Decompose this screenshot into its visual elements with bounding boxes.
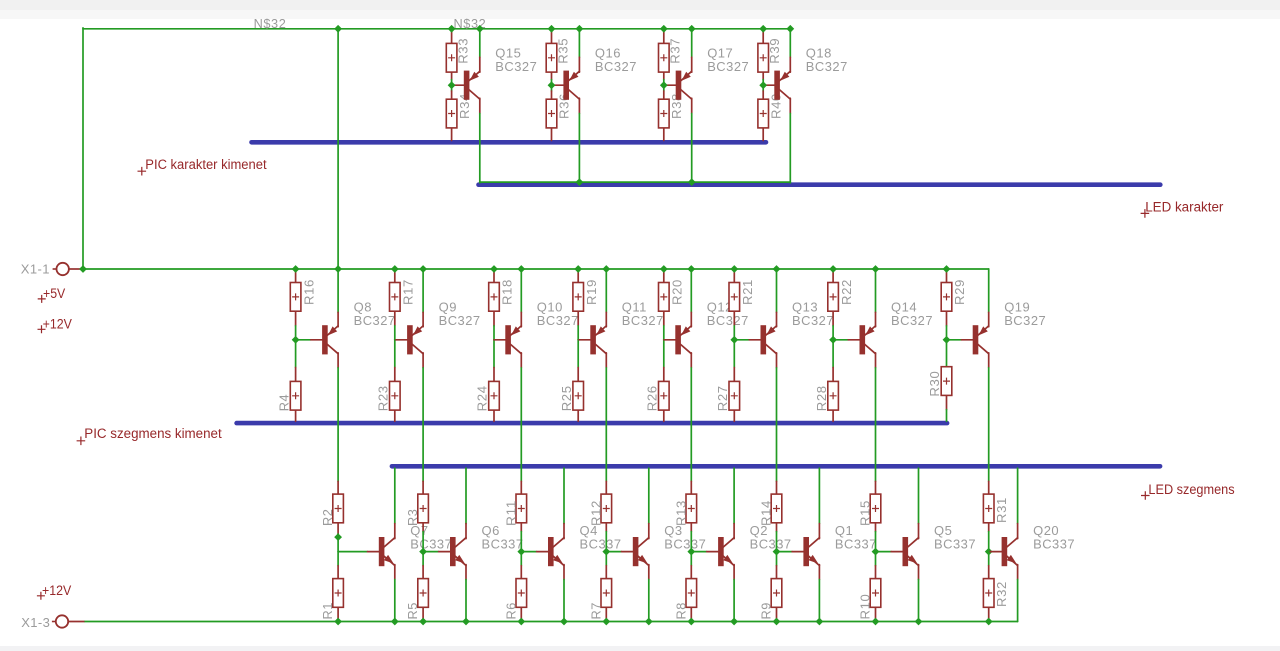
wire base node Q10 upper xyxy=(493,326,495,340)
junction base Q8 xyxy=(292,336,300,344)
bus PIC karakter kimenet xyxy=(252,140,767,145)
wire emitter Q11 net xyxy=(605,269,607,312)
wire net N$32 left vertical xyxy=(82,28,84,269)
wire base Q14 horizontal xyxy=(833,339,848,341)
resistor R9 xyxy=(759,579,782,620)
junction base Q19 xyxy=(943,336,951,344)
wire pin R27 top xyxy=(733,368,735,382)
wire emitter Q18 pin xyxy=(789,57,791,72)
wire base node Q5 xyxy=(875,532,877,566)
resistor R34 xyxy=(446,93,472,128)
wire collector Q13 pin xyxy=(776,353,778,368)
resistor R12 xyxy=(588,494,611,526)
junction base Q20 xyxy=(985,548,993,556)
svg-text:R5: R5 xyxy=(405,602,420,620)
resistor R26 xyxy=(645,381,670,411)
resistor R16 xyxy=(290,279,316,311)
wire pin R10 bottom xyxy=(875,607,877,621)
svg-text:BC327: BC327 xyxy=(495,59,537,74)
transistor Q1 (BC337) xyxy=(792,523,877,566)
junction X1-3 net at R1 xyxy=(334,618,342,626)
junction base Q6 xyxy=(419,548,427,556)
junction +5V net at R18 xyxy=(490,265,498,273)
wire base Q11 horizontal xyxy=(577,339,580,341)
wire collector Q10 pin xyxy=(520,353,522,368)
resistor R24 xyxy=(475,381,500,411)
wire collector Q15 pin xyxy=(479,98,481,113)
wire pin R5 bottom xyxy=(422,607,424,621)
wire emitter Q4 net xyxy=(563,580,565,622)
resistor R33 xyxy=(446,38,470,72)
wire base node Q15 xyxy=(451,80,453,91)
junction base Q3 xyxy=(602,548,610,556)
wire emitter Q5 pin xyxy=(918,565,920,580)
wire base node Q8 upper xyxy=(295,326,297,340)
wire pin R29 top xyxy=(946,269,948,283)
wire emitter Q16 pin xyxy=(578,57,580,72)
wire pin R3 bottom xyxy=(422,523,424,532)
wire base Q12 horizontal xyxy=(663,339,665,341)
junction base Q14 xyxy=(829,336,837,344)
svg-text:R13: R13 xyxy=(673,500,688,526)
bus LED karakter xyxy=(479,182,1161,187)
wire pin R7 top xyxy=(605,566,607,579)
wire collector Q9 pin xyxy=(422,353,424,368)
wire LED karakter net along bus xyxy=(480,181,791,183)
resistor R1 xyxy=(320,579,343,620)
wire pin R12 bottom xyxy=(605,523,607,532)
bus label LED karakter xyxy=(1141,199,1224,217)
junction +5V net at Q9 emitter xyxy=(419,265,427,273)
wire collector Q17 to LED karakter xyxy=(691,114,693,183)
wire base Q15 horizontal xyxy=(451,84,454,86)
wire pin R33 bottom xyxy=(451,71,453,79)
transistor Q14 (BC327) xyxy=(848,300,933,355)
wire X1-3 bottom horizontal xyxy=(85,621,1018,623)
svg-text:BC327: BC327 xyxy=(354,313,396,328)
power label +5V xyxy=(38,285,66,303)
svg-text:BC327: BC327 xyxy=(622,313,664,328)
wire pin R4 top xyxy=(295,368,297,382)
resistor R10 xyxy=(858,579,881,620)
wire pin R28 top xyxy=(832,368,834,382)
wire collector Q9 to R3 xyxy=(422,368,424,482)
wire N$32 vertical to X1-1 net xyxy=(337,29,339,269)
junction N$32 at Q16 emitter xyxy=(576,25,584,33)
wire emitter Q17 net xyxy=(691,29,693,57)
wire collector Q1 net xyxy=(818,468,820,523)
svg-text:R15: R15 xyxy=(858,500,873,526)
wire pin R20 bottom xyxy=(663,311,665,326)
svg-text:R3: R3 xyxy=(405,509,420,527)
wire pin R21 bottom xyxy=(733,311,735,326)
wire emitter Q1 pin xyxy=(818,565,820,580)
wire emitter Q2 net xyxy=(733,580,735,622)
wire pin R26 top xyxy=(663,368,665,382)
wire base node Q18 xyxy=(762,80,764,91)
svg-text:R4: R4 xyxy=(276,394,291,412)
svg-text:+12V: +12V xyxy=(42,582,72,598)
wire base Q3 horizontal xyxy=(606,551,621,553)
transistor Q11 (BC327) xyxy=(579,300,664,355)
wire collector Q19 to R31 xyxy=(988,368,990,482)
wire pin R31 top xyxy=(988,481,990,494)
wire emitter Q4 pin xyxy=(563,565,565,580)
junction LED karakter net at Q16 collector xyxy=(576,178,584,186)
resistor R29 xyxy=(941,279,967,311)
wire pin R17 top xyxy=(394,269,396,283)
wire pin R31 bottom xyxy=(988,523,990,532)
wire pin R26 bottom to bus xyxy=(663,410,665,421)
svg-text:R16: R16 xyxy=(301,279,316,305)
wire emitter Q6 pin xyxy=(465,565,467,580)
svg-text:R31: R31 xyxy=(994,497,1009,523)
resistor R4 xyxy=(276,381,301,411)
resistor R2 xyxy=(320,494,343,526)
wire pin R11 top xyxy=(520,481,522,494)
wire pin R28 bottom to bus xyxy=(832,410,834,421)
wire emitter Q16 net xyxy=(578,29,580,57)
resistor R35 xyxy=(546,38,570,72)
svg-text:N$32: N$32 xyxy=(254,16,287,31)
transistor Q12 (BC327) xyxy=(664,300,749,355)
bus label PIC karakter kimenet xyxy=(138,157,267,176)
junction X1-3 net at R5 xyxy=(419,618,427,626)
wire pin R35 bottom xyxy=(551,71,553,79)
wire collector Q4 net xyxy=(563,468,565,523)
transistor Q3 (BC337) xyxy=(622,523,707,566)
resistor R39 xyxy=(758,38,782,72)
wire collector Q1 pin xyxy=(818,524,820,539)
wire pin R2 top xyxy=(337,481,339,494)
resistor R19 xyxy=(573,279,599,311)
wire base node Q12 upper xyxy=(663,326,665,340)
resistor R31 xyxy=(983,494,1009,523)
wire base Q13 horizontal xyxy=(734,339,749,341)
wire base node Q6 xyxy=(422,532,424,566)
wire collector Q17 pin xyxy=(691,98,693,113)
bus label LED szegmens xyxy=(1141,482,1235,500)
wire emitter Q19 pin xyxy=(988,312,990,327)
wire pin R30 bottom xyxy=(946,395,948,409)
svg-text:R18: R18 xyxy=(500,279,515,305)
wire collector Q13 to R14 xyxy=(776,368,778,482)
wire emitter Q3 net xyxy=(648,580,650,622)
svg-text:BC327: BC327 xyxy=(707,313,749,328)
wire pin R27 bottom to bus xyxy=(733,410,735,421)
transistor Q15 (BC327) xyxy=(453,46,538,100)
wire pin R5 top xyxy=(422,566,424,579)
wire base node Q7 xyxy=(337,534,339,566)
wire collector Q8 to R2 xyxy=(337,368,339,482)
resistor R27 xyxy=(715,381,740,411)
junction X1-3 net at Q3 emitter xyxy=(645,618,653,626)
svg-text:R26: R26 xyxy=(645,385,660,411)
junction X1-3 net at Q7 emitter xyxy=(391,618,399,626)
junction N$32 at Q15 emitter xyxy=(476,25,484,33)
resistor R21 xyxy=(729,279,755,311)
junction +5V net at R29 xyxy=(943,265,951,273)
resistor R18 xyxy=(489,279,515,311)
junction +5V net at Q14 emitter xyxy=(872,265,880,273)
wire collector Q6 net xyxy=(465,468,467,523)
resistor R7 xyxy=(588,579,611,620)
resistor R23 xyxy=(376,381,401,411)
wire pin R23 top xyxy=(394,368,396,382)
wire collector Q16 pin xyxy=(578,98,580,113)
junction +5V net at Q12 emitter xyxy=(687,265,695,273)
junction N$32 at R39 xyxy=(759,25,767,33)
wire collector Q16 to LED karakter xyxy=(578,114,580,183)
wire pin R29 bottom xyxy=(946,311,948,326)
junction X1-3 net at R10 xyxy=(872,618,880,626)
wire base Q2 horizontal xyxy=(691,551,707,553)
wire net N$32 top horizontal xyxy=(83,28,790,30)
wire base Q9 horizontal xyxy=(395,339,396,341)
junction N$32 at Q17 emitter xyxy=(688,25,696,33)
transistor Q5 (BC337) xyxy=(891,523,976,566)
svg-text:R9: R9 xyxy=(759,602,774,620)
wire emitter Q10 pin xyxy=(520,312,522,327)
wire pin R38 top xyxy=(663,91,665,99)
wire emitter Q14 pin xyxy=(875,312,877,327)
junction base Q2 xyxy=(687,548,695,556)
svg-text:X1-1: X1-1 xyxy=(21,262,50,277)
wire emitter Q2 pin xyxy=(733,565,735,580)
wire pin R40 bottom to bus xyxy=(762,128,764,141)
svg-text:PIC szegmens kimenet: PIC szegmens kimenet xyxy=(84,426,222,441)
svg-text:R23: R23 xyxy=(376,385,391,411)
wire pin R22 bottom xyxy=(832,311,834,326)
svg-text:R7: R7 xyxy=(588,602,603,620)
wire emitter Q12 pin xyxy=(690,312,692,327)
junction +5V net at Q8 emitter xyxy=(334,265,342,273)
wire emitter Q3 pin xyxy=(648,565,650,580)
junction base Q4 xyxy=(517,548,525,556)
wire pin R34 top xyxy=(451,91,453,99)
wire base node Q19 lower xyxy=(946,340,948,368)
transistor Q18 (BC327) xyxy=(763,46,848,100)
svg-text:+5V: +5V xyxy=(43,285,66,301)
wire base node Q11 lower xyxy=(577,340,579,368)
wire pin R2 bottom xyxy=(337,523,339,534)
wire base node Q3 xyxy=(605,532,607,566)
svg-text:+12V: +12V xyxy=(43,316,73,332)
resistor R40 xyxy=(758,93,784,128)
wire pin R13 bottom xyxy=(690,523,692,532)
svg-text:BC337: BC337 xyxy=(835,536,877,551)
wire base node Q16 xyxy=(551,80,553,91)
wire base Q20 horizontal xyxy=(989,551,991,553)
junction base Q7 (upper) xyxy=(334,533,342,541)
svg-text:BC337: BC337 xyxy=(750,536,792,551)
wire emitter Q7 pin xyxy=(394,565,396,580)
svg-text:R24: R24 xyxy=(475,385,490,411)
junction +5V net at R21 xyxy=(730,265,738,273)
wire emitter Q12 net xyxy=(690,269,692,312)
junction X1-3 net at R6 xyxy=(517,618,525,626)
svg-text:R35: R35 xyxy=(555,38,570,64)
wire pin R37 bottom xyxy=(663,71,665,79)
transistor Q8 (BC327) xyxy=(311,300,396,355)
wire pin R13 top xyxy=(690,481,692,494)
wire emitter Q13 net xyxy=(776,269,778,312)
power label +12V (middle) xyxy=(38,316,73,334)
svg-text:R10: R10 xyxy=(858,594,873,620)
wire pin R30 top xyxy=(946,366,948,369)
svg-text:BC327: BC327 xyxy=(707,59,749,74)
wire base node Q4 xyxy=(520,532,522,566)
wire base node Q9 lower xyxy=(394,340,396,368)
svg-text:X1-3: X1-3 xyxy=(21,615,50,630)
svg-text:R2: R2 xyxy=(320,509,335,527)
power label +12V (bottom) xyxy=(37,582,72,600)
svg-text:R14: R14 xyxy=(759,500,774,526)
wire emitter Q8 pin xyxy=(337,312,339,327)
wire pin R11 bottom xyxy=(520,523,522,532)
wire emitter Q15 net xyxy=(479,29,481,57)
svg-text:BC337: BC337 xyxy=(410,536,452,551)
pin X1-1 xyxy=(21,262,83,277)
wire collector Q18 pin xyxy=(789,98,791,113)
wire collector Q20 net xyxy=(1017,468,1019,523)
wire pin R24 bottom to bus xyxy=(493,410,495,421)
junction X1-3 net at R32 xyxy=(985,618,993,626)
wire base Q7 horizontal xyxy=(338,551,367,553)
wire pin R1 top xyxy=(337,566,339,579)
svg-text:BC327: BC327 xyxy=(806,59,848,74)
wire pin R37 top xyxy=(663,29,665,44)
wire emitter Q9 pin xyxy=(422,312,424,327)
wire pin R32 top xyxy=(988,566,990,579)
bus label PIC szegmens kimenet xyxy=(77,426,222,445)
junction X1-3 net at Q1 emitter xyxy=(816,618,824,626)
wire pin R16 bottom xyxy=(295,311,297,326)
junction +5V net at Q10 emitter xyxy=(517,265,525,273)
svg-text:BC327: BC327 xyxy=(891,313,933,328)
wire collector Q14 pin xyxy=(875,353,877,368)
resistor R32 xyxy=(983,579,1009,608)
junction LED karakter net at Q17 collector xyxy=(688,178,696,186)
junction X1-3 net at Q2 emitter xyxy=(730,618,738,626)
svg-text:R39: R39 xyxy=(767,38,782,64)
resistor R25 xyxy=(559,381,584,411)
junction N$32 at R37 xyxy=(660,25,668,33)
wire base Q19 horizontal xyxy=(947,339,962,341)
wire base node Q14 lower xyxy=(832,340,834,368)
junction X1-3 net at R8 xyxy=(687,618,695,626)
junction +5V net at Q13 emitter xyxy=(773,265,781,273)
resistor R6 xyxy=(503,579,526,620)
wire emitter Q6 net xyxy=(465,580,467,622)
wire collector Q8 pin xyxy=(337,353,339,368)
svg-text:R17: R17 xyxy=(401,279,416,305)
transistor Q19 (BC327) xyxy=(961,300,1046,355)
wire pin R38 bottom to bus xyxy=(663,128,665,141)
junction X1-3 net at R9 xyxy=(773,618,781,626)
wire emitter Q20 net xyxy=(1017,580,1019,622)
wire emitter Q18 net xyxy=(789,29,791,57)
transistor Q16 (BC327) xyxy=(552,46,637,100)
bus LED szegmens xyxy=(392,464,1160,469)
junction base Q18 xyxy=(759,81,767,89)
svg-text:PIC karakter kimenet: PIC karakter kimenet xyxy=(145,157,267,172)
wire base Q6 horizontal xyxy=(423,551,439,553)
svg-text:R33: R33 xyxy=(455,38,470,64)
junction N$32 at Q18 emitter xyxy=(786,25,794,33)
wire collector Q10 to R11 xyxy=(520,368,522,482)
wire +5V X1-1 horizontal xyxy=(83,268,989,270)
junction base Q17 xyxy=(660,81,668,89)
wire emitter Q13 pin xyxy=(776,312,778,327)
wire pin R20 top xyxy=(663,269,665,283)
wire pin R21 top xyxy=(733,269,735,283)
wire collector Q19 pin xyxy=(988,353,990,368)
wire pin R15 top xyxy=(875,481,877,494)
wire pin R6 bottom xyxy=(520,607,522,621)
junction X1-3 net at R7 xyxy=(602,618,610,626)
wire pin R24 top xyxy=(493,368,495,382)
svg-text:LED karakter: LED karakter xyxy=(1145,199,1224,214)
svg-text:BC337: BC337 xyxy=(1033,536,1075,551)
svg-text:R8: R8 xyxy=(673,602,688,620)
svg-text:BC337: BC337 xyxy=(934,536,976,551)
wire collector Q2 net xyxy=(733,468,735,523)
wire emitter Q9 net xyxy=(422,269,424,312)
wire collector Q11 pin xyxy=(605,353,607,368)
wire base node Q20 xyxy=(988,532,990,566)
wire pin R25 bottom to bus xyxy=(577,410,579,421)
junction +5V net at R22 xyxy=(829,265,837,273)
transistor Q4 (BC337) xyxy=(537,523,622,566)
pin X1-3 xyxy=(21,615,84,630)
resistor R37 xyxy=(659,38,683,72)
resistor R8 xyxy=(673,579,696,620)
svg-text:R6: R6 xyxy=(503,602,518,620)
wire base node Q8 lower xyxy=(295,340,297,368)
wire pin R19 top xyxy=(577,269,579,283)
svg-text:R28: R28 xyxy=(814,385,829,411)
transistor Q10 (BC327) xyxy=(494,300,579,355)
wire base Q8 horizontal xyxy=(296,339,311,341)
wire base node Q13 upper xyxy=(733,326,735,340)
svg-text:BC337: BC337 xyxy=(664,536,706,551)
wire pin R18 bottom xyxy=(493,311,495,326)
wire pin R23 bottom to bus xyxy=(394,410,396,421)
wire collector Q7 net xyxy=(394,468,396,523)
wire emitter Q19 net xyxy=(988,269,990,312)
wire collector Q2 pin xyxy=(733,524,735,539)
wire base node Q17 xyxy=(663,80,665,91)
wire pin R8 bottom xyxy=(690,607,692,621)
resistor R11 xyxy=(503,494,526,526)
wire base node Q12 lower xyxy=(663,340,665,368)
wire pin R36 top xyxy=(551,91,553,99)
svg-text:R37: R37 xyxy=(668,38,683,64)
wire collector Q11 to R12 xyxy=(605,368,607,482)
resistor R5 xyxy=(405,579,428,620)
junction base Q16 xyxy=(548,81,556,89)
wire base node Q10 lower xyxy=(493,340,495,368)
wire base Q1 horizontal xyxy=(777,551,793,553)
svg-text:BC337: BC337 xyxy=(580,536,622,551)
transistor Q7 (BC337) xyxy=(368,523,453,566)
wire collector Q6 pin xyxy=(465,524,467,539)
wire pin R8 top xyxy=(690,566,692,579)
wire pin R9 top xyxy=(776,566,778,579)
resistor R13 xyxy=(673,494,696,526)
wire base node Q1 xyxy=(776,532,778,566)
